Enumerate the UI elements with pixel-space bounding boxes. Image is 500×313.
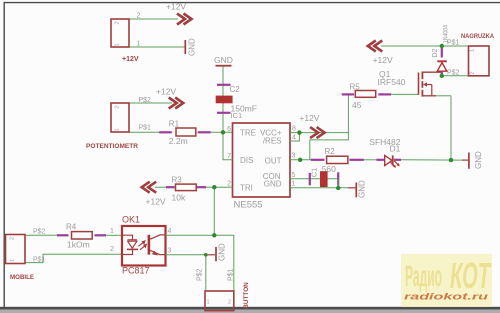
svg-text:DIS: DIS [240, 156, 253, 165]
svg-text:P$2: P$2 [197, 268, 204, 281]
svg-text:NAGRUZKA: NAGRUZKA [461, 33, 494, 40]
svg-text:2: 2 [115, 105, 121, 108]
svg-text:КОТ: КОТ [450, 255, 492, 296]
svg-text:1kOm: 1kOm [67, 240, 90, 250]
svg-text:GND: GND [358, 180, 367, 198]
svg-text:P$1: P$1 [447, 40, 460, 47]
svg-text:P$1: P$1 [33, 257, 46, 264]
svg-text:5: 5 [292, 172, 296, 179]
svg-text:GND: GND [474, 151, 483, 169]
svg-text:2: 2 [10, 237, 16, 240]
svg-text:+12V: +12V [146, 197, 166, 207]
svg-text:6: 6 [227, 126, 231, 133]
svg-text:1: 1 [470, 49, 476, 52]
svg-text:+12V: +12V [166, 1, 186, 11]
svg-text:4: 4 [168, 228, 172, 235]
svg-text:D1: D1 [390, 144, 401, 154]
svg-text:C2: C2 [230, 85, 241, 94]
svg-text:1: 1 [115, 128, 121, 131]
svg-text:GND: GND [264, 180, 282, 189]
svg-text:R5: R5 [350, 83, 361, 92]
svg-text:R4: R4 [66, 222, 77, 231]
svg-text:GND: GND [188, 38, 197, 56]
svg-text:1: 1 [207, 300, 210, 306]
svg-text:1: 1 [110, 228, 114, 235]
svg-text:OUT: OUT [265, 157, 282, 166]
svg-text:BUTTON: BUTTON [243, 282, 250, 309]
svg-text:2.2m: 2.2m [169, 136, 188, 146]
svg-text:45: 45 [352, 100, 362, 110]
svg-text:C1: C1 [310, 168, 319, 178]
svg-text:2: 2 [137, 13, 141, 20]
svg-text:TRE: TRE [240, 129, 256, 138]
svg-text:radiokot.ru: radiokot.ru [404, 292, 488, 303]
svg-text:1: 1 [137, 41, 141, 48]
svg-text:IC1: IC1 [231, 111, 243, 120]
svg-text:IRF540: IRF540 [378, 77, 406, 87]
svg-text:/RES: /RES [263, 137, 282, 146]
svg-text:POTENTIOMETR: POTENTIOMETR [86, 143, 138, 150]
svg-text:R1: R1 [169, 120, 180, 129]
svg-text:2: 2 [228, 300, 231, 306]
svg-text:P$2: P$2 [447, 70, 460, 77]
svg-text:1: 1 [292, 181, 296, 188]
svg-text:2: 2 [227, 181, 231, 188]
svg-text:D2: D2 [432, 48, 439, 57]
svg-text:2: 2 [470, 71, 476, 74]
svg-text:R3: R3 [172, 176, 183, 185]
svg-text:2: 2 [110, 246, 114, 253]
svg-text:R2: R2 [325, 147, 336, 156]
svg-text:+12V: +12V [373, 55, 393, 65]
svg-text:P$1: P$1 [227, 268, 234, 281]
svg-text:+12V: +12V [299, 113, 319, 123]
svg-text:1: 1 [10, 259, 16, 262]
svg-text:TRI: TRI [240, 184, 253, 193]
svg-text:NE555: NE555 [234, 200, 263, 211]
svg-text:8: 8 [292, 126, 296, 133]
svg-text:MOBILE: MOBILE [10, 274, 34, 281]
svg-text:P$2: P$2 [139, 97, 152, 104]
svg-text:2: 2 [115, 21, 121, 24]
svg-text:GND: GND [218, 243, 227, 261]
svg-text:+12V: +12V [156, 87, 176, 97]
svg-text:10k: 10k [172, 193, 186, 203]
svg-text:P$1: P$1 [139, 125, 152, 132]
svg-text:GND: GND [214, 55, 233, 65]
svg-text:PC817: PC817 [122, 266, 150, 276]
svg-text:3: 3 [168, 248, 172, 255]
svg-text:+12V: +12V [122, 56, 139, 63]
svg-text:4: 4 [292, 135, 296, 142]
svg-text:7: 7 [227, 153, 231, 160]
svg-text:Радио: Радио [405, 260, 442, 293]
svg-text:P$2: P$2 [33, 229, 46, 236]
svg-text:3: 3 [292, 153, 296, 160]
svg-text:OK1: OK1 [122, 215, 140, 225]
svg-text:1: 1 [115, 43, 121, 46]
